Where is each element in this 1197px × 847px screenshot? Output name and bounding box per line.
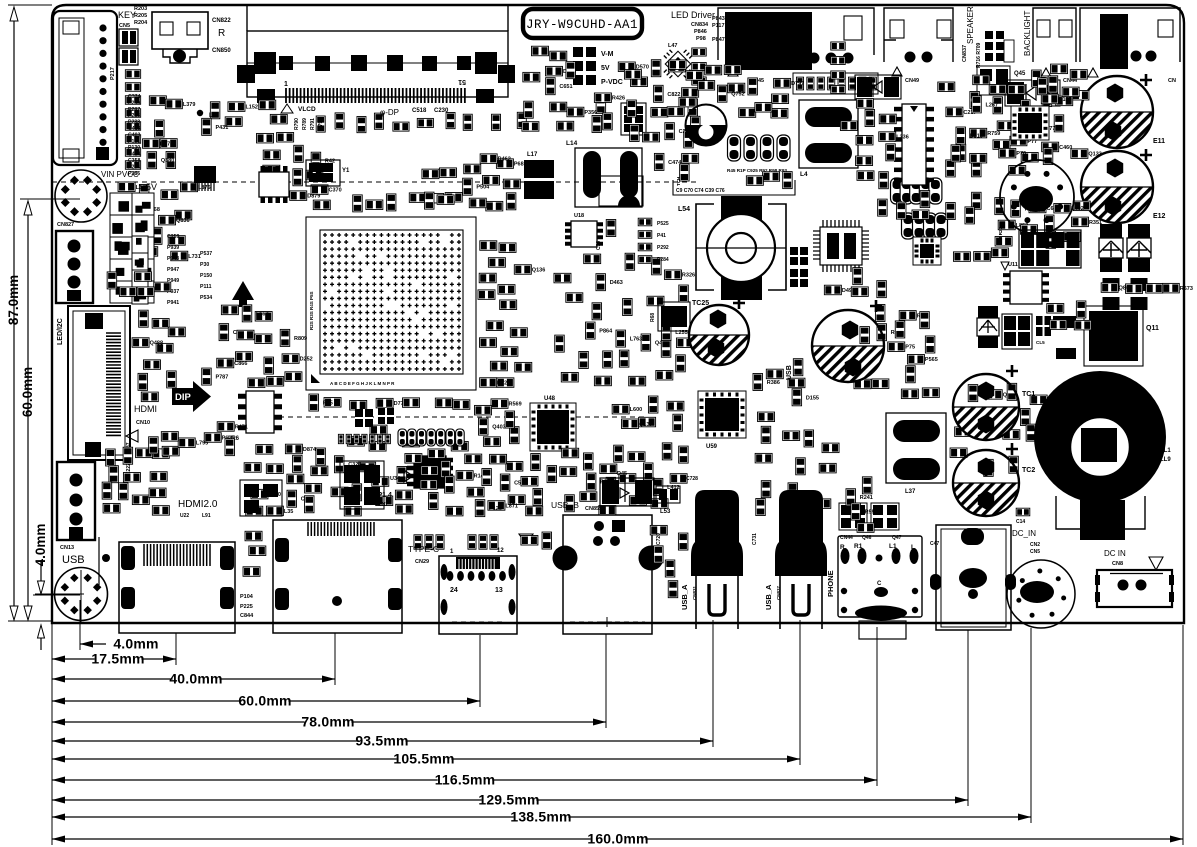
- SMD cluster top-mid A: [523, 46, 576, 94]
- svg-text:CN827: CN827: [57, 222, 74, 228]
- svg-text:U22: U22: [180, 513, 189, 519]
- svg-text:C474: C474: [668, 160, 682, 166]
- diode network L47: [655, 41, 700, 86]
- svg-text:C230: C230: [434, 108, 449, 114]
- svg-text:R386: R386: [767, 380, 780, 386]
- dimension 60.0mm: [27, 203, 29, 617]
- svg-text:24: 24: [450, 587, 458, 594]
- SMD cluster XB: [202, 102, 258, 136]
- svg-text:L763: L763: [630, 337, 643, 343]
- svg-text:C374: C374: [128, 94, 141, 100]
- svg-text:5V: 5V: [146, 182, 157, 192]
- svg-text:P294: P294: [128, 164, 140, 170]
- svg-text:P30: P30: [200, 262, 209, 268]
- svg-text:L4: L4: [800, 171, 808, 178]
- svg-text:129.5mm: 129.5mm: [478, 792, 539, 808]
- connector CN6 (AV): [930, 525, 1016, 630]
- SMD cluster O: [244, 444, 328, 516]
- svg-text:R809: R809: [294, 336, 307, 342]
- svg-text:L17: L17: [527, 152, 538, 158]
- svg-text:L871: L871: [505, 503, 518, 509]
- connector USB_A 1: [691, 490, 743, 629]
- svg-text:TCH: TCH: [676, 177, 681, 186]
- inductor L53: [656, 486, 680, 503]
- svg-text:CN: CN: [1168, 78, 1176, 84]
- svg-text:5V: 5V: [601, 65, 610, 72]
- svg-text:R28 R23: R28 R23: [998, 226, 1003, 245]
- connector CN827 (VIN): [55, 170, 107, 222]
- title box JRY-W9CUHD-AA1: [523, 9, 642, 38]
- capacitor E11: [1081, 74, 1165, 148]
- svg-text:C720: C720: [656, 533, 662, 545]
- SMD cluster AF: [1047, 301, 1105, 330]
- triangle marker: [126, 430, 138, 442]
- svg-text:CN855: CN855: [585, 506, 602, 512]
- diode tower DL3: [977, 306, 999, 348]
- svg-text:CN5: CN5: [119, 23, 130, 29]
- pad checkerboard L41: [1019, 230, 1081, 268]
- polarity triangle: [281, 104, 293, 113]
- capacitor TC26: [812, 300, 884, 382]
- svg-text:C518: C518: [412, 108, 427, 114]
- connector USB_A 2: [775, 490, 827, 629]
- svg-text:Q133: Q133: [1088, 152, 1101, 158]
- svg-text:V-M: V-M: [601, 51, 614, 58]
- svg-text:VLCD: VLCD: [298, 106, 316, 113]
- SMD cluster U: [950, 383, 1061, 476]
- SMD cluster mid-left D: [143, 96, 196, 169]
- connector BACKLIGHT 1: [1033, 8, 1076, 62]
- svg-text:R: R: [218, 28, 225, 39]
- svg-text:D463: D463: [610, 280, 623, 286]
- svg-text:LED/I2C: LED/I2C: [57, 318, 64, 345]
- board outline: [52, 5, 1184, 623]
- crystal L37: [886, 413, 946, 483]
- svg-text:1: 1: [284, 81, 288, 88]
- svg-text:L37: L37: [905, 489, 916, 495]
- resistor group R1: [414, 535, 444, 549]
- svg-text:C14: C14: [1016, 519, 1025, 525]
- IC U45 (QFN twin): [813, 220, 869, 272]
- svg-text:87.0mm: 87.0mm: [6, 275, 21, 325]
- svg-text:BACKLIGHT: BACKLIGHT: [1023, 11, 1032, 56]
- svg-text:138.5mm: 138.5mm: [510, 809, 571, 825]
- svg-text:R791: R791: [310, 118, 316, 130]
- connector CN5 (KEY): [53, 11, 117, 165]
- TCH zone bracket: [673, 180, 795, 195]
- svg-text:DC_IN: DC_IN: [1012, 529, 1036, 538]
- svg-text:P217: P217: [110, 67, 116, 80]
- label column: [128, 94, 141, 177]
- svg-text:USB_A: USB_A: [764, 584, 773, 610]
- svg-text:D797: D797: [791, 81, 804, 87]
- svg-text:CN837: CN837: [962, 45, 968, 62]
- capacitor TC25: [689, 297, 749, 365]
- svg-text:U18: U18: [574, 213, 584, 219]
- dimension 4.0mm: [80, 636, 159, 652]
- svg-text:P537: P537: [200, 251, 212, 257]
- svg-text:CL5: CL5: [1036, 340, 1045, 345]
- dimension 40.0mm: [52, 671, 335, 687]
- SMD cluster P245 col: [257, 100, 294, 175]
- diode D1: [1005, 80, 1060, 106]
- diode tower DL2: [1127, 224, 1151, 310]
- IC D84 (6-pad): [621, 103, 646, 135]
- svg-text:CN2: CN2: [1030, 542, 1040, 548]
- SMD cluster right of FFC: [132, 310, 185, 401]
- svg-text:TC25: TC25: [692, 300, 709, 307]
- connector LVDS CN1: [237, 5, 515, 103]
- svg-text:R790: R790: [294, 118, 300, 130]
- SMD cluster 740-800: [746, 172, 792, 189]
- svg-text:4.0mm: 4.0mm: [113, 636, 158, 652]
- resistor network RN1: [119, 29, 138, 46]
- svg-text:LL9: LL9: [1160, 457, 1171, 463]
- SMD cluster right of BGA: [478, 241, 545, 388]
- svg-text:OP1,4: OP1,4: [372, 492, 392, 499]
- SMD cluster mid low: [475, 399, 522, 446]
- svg-text:P290: P290: [128, 100, 140, 106]
- SMD cluster below FFC: [149, 432, 235, 456]
- dimension 105.5mm: [52, 751, 800, 767]
- resistor network RN2: [119, 48, 138, 65]
- IC U48 (QFN): [530, 403, 576, 451]
- SMD cluster mid N: [331, 425, 468, 516]
- dimension 4.0mm (left) extension tick: [33, 594, 80, 596]
- svg-text:P70: P70: [1016, 151, 1026, 157]
- diode D45: [600, 478, 654, 506]
- svg-text:40.0mm: 40.0mm: [169, 671, 222, 687]
- svg-text:P534: P534: [200, 295, 212, 301]
- pads V-M 5V P-VDC: [573, 47, 623, 86]
- svg-text:L731: L731: [188, 254, 201, 260]
- connector CN12: [57, 462, 95, 540]
- crystal L4: [799, 100, 858, 168]
- svg-text:USB_B: USB_B: [551, 500, 579, 510]
- dimension extension line x=713: [712, 620, 714, 747]
- dimension extension line x=480: [479, 635, 481, 707]
- svg-text:R481: R481: [1092, 323, 1105, 329]
- svg-text:CN850: CN850: [212, 48, 231, 54]
- SMD cluster T: [854, 304, 939, 398]
- SMD cluster E: [290, 145, 342, 209]
- svg-text:R569: R569: [509, 402, 522, 408]
- svg-text:R204: R204: [134, 20, 148, 26]
- svg-text:P150: P150: [200, 273, 212, 279]
- svg-text:P846: P846: [694, 29, 707, 35]
- svg-text:C866: C866: [234, 361, 247, 367]
- svg-text:PHONE: PHONE: [826, 570, 835, 597]
- connector CN855 (USB_B): [553, 515, 664, 634]
- svg-text:C454: C454: [128, 152, 141, 158]
- svg-text:C413: C413: [128, 126, 141, 132]
- dimension 138.5mm: [52, 809, 1031, 825]
- svg-text:CN5: CN5: [1030, 549, 1040, 555]
- dimension extension line x=877: [876, 627, 878, 786]
- capacitor row C17: [902, 213, 948, 239]
- svg-text:C460: C460: [1059, 145, 1072, 151]
- dashed section line: [252, 416, 645, 418]
- svg-text:78.0mm: 78.0mm: [301, 714, 354, 730]
- svg-text:P431: P431: [215, 125, 228, 131]
- svg-text:C9 C70 C74 C39 C76: C9 C70 C74 C39 C76: [676, 188, 725, 194]
- crystal L14: [575, 148, 642, 207]
- svg-text:CN837: CN837: [776, 585, 781, 600]
- triangle marker: [519, 534, 533, 544]
- SMD cluster top-mid extra: [566, 60, 696, 130]
- svg-text:P504: P504: [476, 185, 490, 191]
- transistor Q2 pads: [340, 461, 384, 509]
- capacitor TC1: [953, 365, 1035, 440]
- IC U59 (QFN): [698, 391, 746, 438]
- connector CN9 (HDMI2.0): [273, 520, 402, 633]
- svg-text:C36: C36: [596, 241, 602, 250]
- svg-text:R792: R792: [318, 118, 324, 130]
- svg-text:R326: R326: [682, 273, 695, 279]
- svg-text:C259: C259: [167, 234, 180, 240]
- SMD cluster P: [102, 447, 169, 515]
- svg-text:CN10: CN10: [136, 420, 150, 426]
- transistor Q45: [977, 66, 1010, 95]
- dimension 87.0mm extension ticks: [8, 4, 52, 6]
- svg-text:CN29: CN29: [415, 559, 429, 565]
- inductor L40: [686, 105, 727, 146]
- svg-text:P847: P847: [712, 37, 725, 43]
- svg-text:R25: R25: [323, 401, 333, 407]
- SMD pad strip: [793, 73, 878, 94]
- svg-text:116.5mm: 116.5mm: [435, 772, 496, 788]
- svg-text:P68: P68: [514, 162, 524, 168]
- svg-text:φ-DP: φ-DP: [380, 108, 399, 117]
- connector CN11 (LED/I2C FFC): [68, 306, 130, 460]
- svg-text:Q488: Q488: [150, 341, 163, 347]
- dimension extension line x=968: [967, 630, 969, 806]
- SMD cluster left mid: [115, 182, 211, 261]
- svg-text:P117: P117: [712, 23, 725, 29]
- svg-text:P787: P787: [215, 375, 228, 381]
- SMD cluster AC: [650, 525, 688, 597]
- svg-text:DC IN: DC IN: [1104, 549, 1126, 558]
- dimension 116.5mm: [52, 772, 877, 788]
- svg-text:L876: L876: [198, 185, 211, 191]
- connector LED output: [718, 8, 874, 70]
- triangle U34: [404, 470, 413, 482]
- svg-text:51: 51: [458, 78, 466, 85]
- IC U5 with comb: [194, 166, 216, 183]
- dimension 129.5mm: [52, 792, 968, 808]
- SMD component column (left): [125, 70, 140, 170]
- svg-text:P165: P165: [1059, 97, 1072, 103]
- svg-text:Q862: Q862: [1119, 286, 1132, 292]
- svg-text:R789: R789: [302, 118, 308, 130]
- SMD cluster top-mid C: [618, 60, 703, 148]
- svg-text:P356: P356: [584, 110, 597, 116]
- svg-text:C: C: [877, 581, 882, 587]
- connector CN2 (DC_IN round): [1007, 560, 1075, 628]
- svg-text:P565: P565: [925, 357, 938, 363]
- power stage pad mosaic 2: [132, 236, 148, 304]
- svg-text:P939: P939: [167, 245, 179, 251]
- SMD cluster AB: [243, 531, 266, 576]
- op-amp U2: [259, 172, 289, 197]
- dimension extension line x=335: [334, 633, 336, 685]
- svg-text:CN44: CN44: [840, 535, 853, 541]
- svg-text:60.0mm: 60.0mm: [20, 367, 35, 417]
- svg-text:CN13: CN13: [60, 545, 74, 551]
- svg-text:13: 13: [495, 587, 503, 594]
- power inductor L11: [1034, 371, 1166, 540]
- pad D2 (cross): [378, 408, 394, 424]
- svg-text:P525: P525: [657, 221, 669, 227]
- capacitor C14: [1016, 508, 1030, 516]
- svg-text:Y1: Y1: [342, 168, 350, 174]
- svg-text:R241: R241: [860, 495, 873, 501]
- svg-text:P98: P98: [696, 36, 706, 42]
- svg-text:L600: L600: [630, 407, 643, 413]
- svg-text:D675: D675: [160, 142, 173, 148]
- svg-text:105.5mm: 105.5mm: [393, 751, 454, 767]
- connector CN10 (HDMI): [99, 537, 235, 633]
- capacitor row C925: [728, 135, 791, 161]
- svg-text:CN834: CN834: [691, 22, 709, 28]
- capacitor row R16x: [398, 429, 464, 446]
- svg-text:93.5mm: 93.5mm: [355, 733, 408, 749]
- svg-text:L379: L379: [183, 102, 196, 108]
- svg-text:TC1: TC1: [1022, 391, 1035, 398]
- svg-text:12: 12: [497, 548, 504, 554]
- svg-text:USB_A: USB_A: [680, 584, 689, 610]
- svg-text:JRY-W9CUHD-AA1: JRY-W9CUHD-AA1: [526, 18, 638, 32]
- svg-text:D155: D155: [806, 395, 819, 401]
- SMD cluster below BGA: [309, 394, 470, 411]
- SMD cluster right col: [1101, 283, 1193, 294]
- diode DL4: [855, 75, 901, 99]
- svg-text:R471: R471: [235, 424, 248, 430]
- dimension extension line x=606: [605, 634, 607, 728]
- IC U41 (SOP16): [894, 104, 934, 185]
- SMD cluster R: [599, 443, 688, 515]
- svg-text:R203: R203: [134, 6, 147, 12]
- svg-text:C731: C731: [752, 533, 758, 545]
- svg-text:L47: L47: [668, 43, 677, 49]
- svg-text:R2S R3S R4S P5S: R2S R3S R4S P5S: [309, 291, 314, 330]
- svg-text:L567: L567: [256, 311, 269, 317]
- svg-text:P286: P286: [128, 171, 140, 177]
- svg-text:P941: P941: [167, 300, 179, 306]
- pad cluster C788: [790, 269, 808, 287]
- svg-text:P151: P151: [128, 139, 140, 145]
- dimension 78.0mm: [52, 714, 606, 730]
- resistor column P525: [638, 218, 669, 263]
- SMD cluster usbB top: [560, 448, 613, 511]
- svg-text:160.0mm: 160.0mm: [587, 831, 648, 847]
- connector PHONE: [838, 536, 922, 639]
- crystal Y1: [306, 160, 340, 186]
- SMD cluster V: [1032, 64, 1088, 104]
- SMD cluster below top connectors: [728, 78, 804, 118]
- dimension 17.5mm: [52, 651, 176, 667]
- dimension 93.5mm: [52, 733, 713, 749]
- pad D1 (cross): [355, 409, 373, 427]
- SMD column 2: [692, 48, 706, 85]
- svg-text:U59: U59: [706, 444, 718, 450]
- svg-text:C844: C844: [240, 613, 254, 619]
- IC U18: [571, 221, 597, 247]
- SMD cluster right of LVDS: [522, 101, 539, 131]
- svg-text:L35: L35: [284, 509, 293, 515]
- svg-text:L1: L1: [209, 113, 217, 119]
- svg-text:L53: L53: [660, 509, 671, 515]
- svg-text:P225: P225: [240, 604, 253, 610]
- svg-text:L54: L54: [678, 206, 690, 213]
- capacitor E12: [1081, 149, 1166, 223]
- SMD cluster S7 col: [698, 65, 745, 102]
- SMD cluster Z2: [824, 268, 886, 298]
- svg-text:P287: P287: [128, 107, 140, 113]
- SMD column: [831, 42, 845, 94]
- SMD cluster top-mid B: [550, 96, 606, 132]
- connector CN14: [56, 231, 93, 303]
- svg-text:E12: E12: [1153, 213, 1166, 220]
- svg-text:R716 R709: R716 R709: [976, 42, 982, 68]
- svg-text:R673: R673: [1180, 286, 1193, 292]
- svg-text:R68: R68: [650, 313, 656, 322]
- SMD cluster AE: [995, 200, 1102, 248]
- svg-text:E11: E11: [1153, 138, 1165, 145]
- capacitor C36: [606, 220, 616, 237]
- DIP arrow marker: [172, 381, 211, 412]
- svg-text:17.5mm: 17.5mm: [91, 651, 144, 667]
- connector CN822: [152, 12, 208, 63]
- dot L1: [197, 110, 203, 116]
- svg-text:P292: P292: [657, 245, 669, 251]
- dimension extension line x=80: [79, 600, 81, 650]
- svg-text:Q403: Q403: [492, 425, 505, 431]
- SMD cluster above BGA: [353, 193, 462, 212]
- SMD cluster right of U41: [840, 99, 908, 189]
- svg-text:CN8: CN8: [1112, 561, 1123, 567]
- svg-text:HDMI: HDMI: [134, 404, 157, 414]
- connector CN29 (TYPE-C): [439, 556, 517, 634]
- SMD cluster top-right K: [938, 75, 1102, 177]
- svg-text:R557: R557: [865, 510, 878, 516]
- svg-text:P111: P111: [200, 284, 212, 290]
- svg-text:D72: D72: [497, 380, 507, 386]
- IC U11 (SOIC8): [1010, 271, 1042, 304]
- svg-text:P41: P41: [657, 233, 666, 239]
- SMD cluster left low: [107, 272, 171, 297]
- SMD cluster Z: [878, 191, 1005, 224]
- connector SPEAKER CN837: [884, 8, 953, 63]
- SMD cluster top-right extra: [951, 78, 1053, 165]
- dimension 87.0mm: [13, 10, 15, 617]
- svg-text:P943: P943: [167, 256, 179, 262]
- svg-text:TYPE-C: TYPE-C: [408, 544, 439, 554]
- svg-text:CN7: CN7: [378, 502, 388, 508]
- capacitor row R413: [891, 178, 942, 204]
- inductor bars L43: [1053, 316, 1076, 328]
- connector CN13 (USB): [35, 568, 108, 623]
- svg-text:Q11: Q11: [1146, 325, 1159, 332]
- dimension extension line x=800: [799, 620, 801, 765]
- svg-text:Q46: Q46: [862, 535, 872, 541]
- buzzer BZ1: [1000, 160, 1074, 234]
- svg-text:R462: R462: [498, 157, 511, 163]
- svg-text:L91: L91: [202, 513, 211, 519]
- SMD cluster Z3: [953, 248, 1008, 261]
- svg-text:L795: L795: [196, 441, 209, 447]
- dimension 60.0mm: [52, 693, 480, 709]
